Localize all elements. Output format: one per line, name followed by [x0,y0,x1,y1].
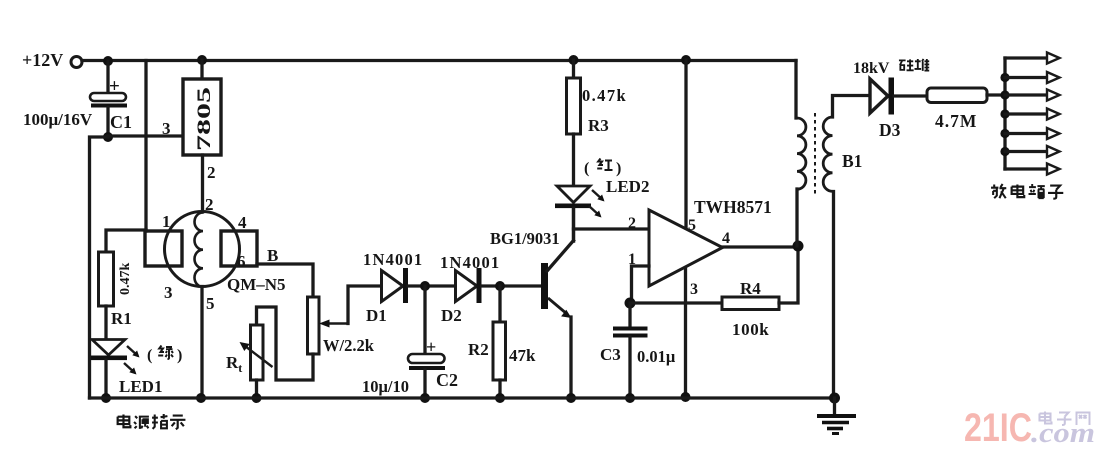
terminal arrow 4 [1047,109,1060,120]
wire transformer primary top drop [794,61,797,119]
wire terminal row 7 [1005,167,1047,170]
node +12V input terminal [71,57,82,68]
node junction emitter bottom [566,393,576,403]
wire C1 bottom lead [106,108,109,138]
node junction C1 bottom [103,132,113,142]
svg-text:18kV: 18kV [853,60,890,77]
svg-text:B: B [267,246,278,265]
wire C3 top lead [628,303,631,327]
transistor BG1 collector [547,208,574,271]
wire C3 bottom lead [628,337,631,398]
resistor R1 [99,252,114,306]
svg-text:C1: C1 [110,112,132,132]
svg-text:D1: D1 [366,306,387,325]
wire collector to pin2 [574,227,649,230]
wire R2 top lead [498,286,501,322]
wire R1 top link [106,230,146,252]
svg-text:0.47k: 0.47k [582,86,627,105]
wire W bottom loop to Rt top [257,307,314,380]
svg-text:): ) [177,347,182,364]
wire C1 to 7805 pin3 [108,134,184,137]
node junction pin5 top [681,55,691,65]
wire D1 to D2 [408,284,455,287]
node junction row 3 [1000,90,1009,99]
wire left rail down [90,137,109,398]
svg-text:4: 4 [722,230,730,247]
wire wiper riser to signal line [348,286,381,324]
wire terminal row 3 [1005,93,1047,96]
node junction row 2 [1000,73,1009,82]
svg-text:2: 2 [628,215,636,232]
diode D2 [456,268,482,303]
svg-text:21IC: 21IC [964,406,1032,450]
wire terminal row 4 [1005,112,1047,115]
svg-text:C3: C3 [600,345,621,364]
svg-text:47k: 47k [509,346,536,365]
wire 7805 pin2 to sensor [201,155,204,212]
node junction row 5 [1000,129,1009,138]
node junction Rt bottom [252,393,262,403]
wire pin1 lead [632,266,650,303]
resistor R4 [722,297,779,310]
wire D3 to R5 [894,94,927,97]
wire D2 to base [482,284,542,287]
transistor BG1 emitter [548,298,572,398]
svg-text:+: + [109,76,120,97]
wire terminal row 6 [1005,150,1047,153]
node junction pin3 bottom [681,392,691,402]
wire LED2 to collector node [572,208,575,241]
wire secondary top to D3 [833,96,870,118]
svg-text:TWH8571: TWH8571 [694,197,772,217]
wire R2 bottom lead [498,380,501,398]
wire primary bottom to output node [795,189,798,246]
node junction C2 bottom [420,393,430,403]
wire discharge terminal bus [1003,58,1006,169]
LED D-LED2 [555,186,605,218]
wire R4 right to output node [779,246,798,303]
capacitor C3 [613,329,648,336]
svg-text:R4: R4 [740,279,761,298]
wire C2 top lead [423,286,426,354]
node junction R2 bottom [495,393,505,403]
wire 7805 top pin [200,60,203,79]
wire feedback row to R4 [630,301,722,304]
wire C2 bottom lead [423,370,426,398]
op-amp U1 TWH8571 [649,210,723,286]
wire top +12V bus [82,59,796,62]
wire sensor pin5 down [200,287,203,399]
thermistor Rt [240,325,273,380]
LED D-LED1 [91,340,140,375]
wire R1 to LED1 [104,306,107,340]
node junction ground [829,393,840,404]
diode D3 [870,78,894,115]
ground [817,398,856,434]
svg-text:6: 6 [237,252,246,271]
svg-text:4: 4 [238,213,247,232]
terminal arrow 3 [1047,90,1060,101]
svg-text:2: 2 [207,163,216,182]
diode D1 [382,268,409,303]
wire pin3 to ground bus [684,268,687,397]
transistor Q1 BG1 base bar [541,263,548,309]
svg-text:BG1/9031: BG1/9031 [490,229,560,248]
wire R3 to LED2 [572,134,575,186]
svg-text:): ) [616,160,621,177]
potentiometer W 2.2k [308,297,320,354]
wire terminal row 2 [1005,76,1047,79]
svg-text:(: ( [584,160,589,177]
potentiometer W wiper arrow [319,320,348,328]
svg-text:3: 3 [162,119,171,138]
node junction C3 top [625,298,636,309]
node junction R2 top [495,281,505,291]
wire sensor pin1 rail from bus [144,61,147,232]
transformer B1 secondary coil [823,117,832,191]
svg-text:0.47k: 0.47k [118,263,133,296]
svg-text:R3: R3 [588,116,609,135]
svg-text:+: + [426,337,436,357]
terminal arrow 5 [1047,128,1060,139]
regulator U2 7805 [183,79,221,155]
wire secondary bottom to ground [832,192,835,399]
svg-text:4.7M: 4.7M [935,111,977,131]
terminal arrow 2 [1047,72,1060,83]
wire terminal row 1 [1005,56,1047,59]
sensor heater coil [195,213,204,287]
svg-text:D3: D3 [879,120,901,140]
resistor R3 [567,78,581,134]
wire ground bus bottom [90,396,836,399]
sensor right electrode box [221,231,257,266]
svg-text:R1: R1 [111,309,132,328]
resistor R2 [493,322,506,380]
svg-text:100k: 100k [732,320,769,339]
wire Rt bottom [255,380,258,398]
wire C1 top lead [106,61,109,93]
svg-text:D2: D2 [441,306,462,325]
label power indicator caption [118,414,186,429]
node junction C3 bottom [625,393,635,403]
node junction LED1 bottom [101,393,111,403]
node junction row 4 [1000,109,1009,118]
svg-text:10μ/10: 10μ/10 [362,377,409,396]
capacitor C1 [90,93,127,108]
svg-text:C2: C2 [436,370,458,390]
node junction row 6 [1000,147,1009,156]
wire terminal row 5 [1005,132,1047,135]
svg-text:(: ( [147,347,152,364]
svg-text:1N4001: 1N4001 [440,253,500,272]
svg-text:LED1: LED1 [119,377,162,396]
node junction R3 top [569,55,579,65]
svg-text:0.01μ: 0.01μ [637,347,676,366]
node junction sensor pin5 bottom [196,393,206,403]
sensor left electrode box [145,231,182,266]
svg-text:W/2.2k: W/2.2k [323,336,375,355]
wire pin4 output [723,245,799,248]
svg-text:+12V: +12V [22,50,63,70]
svg-text:LED2: LED2 [606,177,649,196]
wire pin6 B to W pot top [257,264,313,297]
gas sensor QM-N5 circle [165,212,240,287]
svg-text:5: 5 [206,294,215,313]
terminal arrow 7 [1047,164,1060,175]
node junction C1 top [103,56,113,66]
terminal arrow 6 [1047,146,1060,157]
svg-text:R2: R2 [468,340,489,359]
svg-text:1N4001: 1N4001 [363,250,423,269]
label discharge terminals caption [991,184,1063,199]
transformer B1 primary coil [797,118,806,189]
label 18kV silicon stack [853,59,929,77]
node junction output pin4 [793,241,804,252]
wire LED1 to ground bus [104,360,107,398]
label (green) [147,346,182,365]
svg-text:5: 5 [688,217,696,234]
svg-text:B1: B1 [842,151,862,171]
wire R3 top lead [572,60,575,78]
label (red) [584,159,621,178]
svg-text:100μ/16V: 100μ/16V [23,110,93,129]
terminal arrow 1 [1047,53,1060,64]
node junction 7805 top [197,55,207,65]
capacitor C2 [408,354,445,370]
svg-text:3: 3 [164,283,173,302]
wire R5 to terminal bus [987,93,1005,96]
resistor R5 4.7M [927,88,987,103]
svg-text:7805: 7805 [194,87,215,151]
logo dianziwang [1040,412,1090,426]
svg-text:1: 1 [162,212,171,231]
wire pin5 from bus [684,60,687,228]
svg-text:3: 3 [690,281,698,298]
node junction C2 top [420,281,430,291]
svg-text:.com: .com [1031,417,1095,449]
svg-text:QM–N5: QM–N5 [227,275,286,294]
transformer B1 core (dashed) [814,113,816,197]
